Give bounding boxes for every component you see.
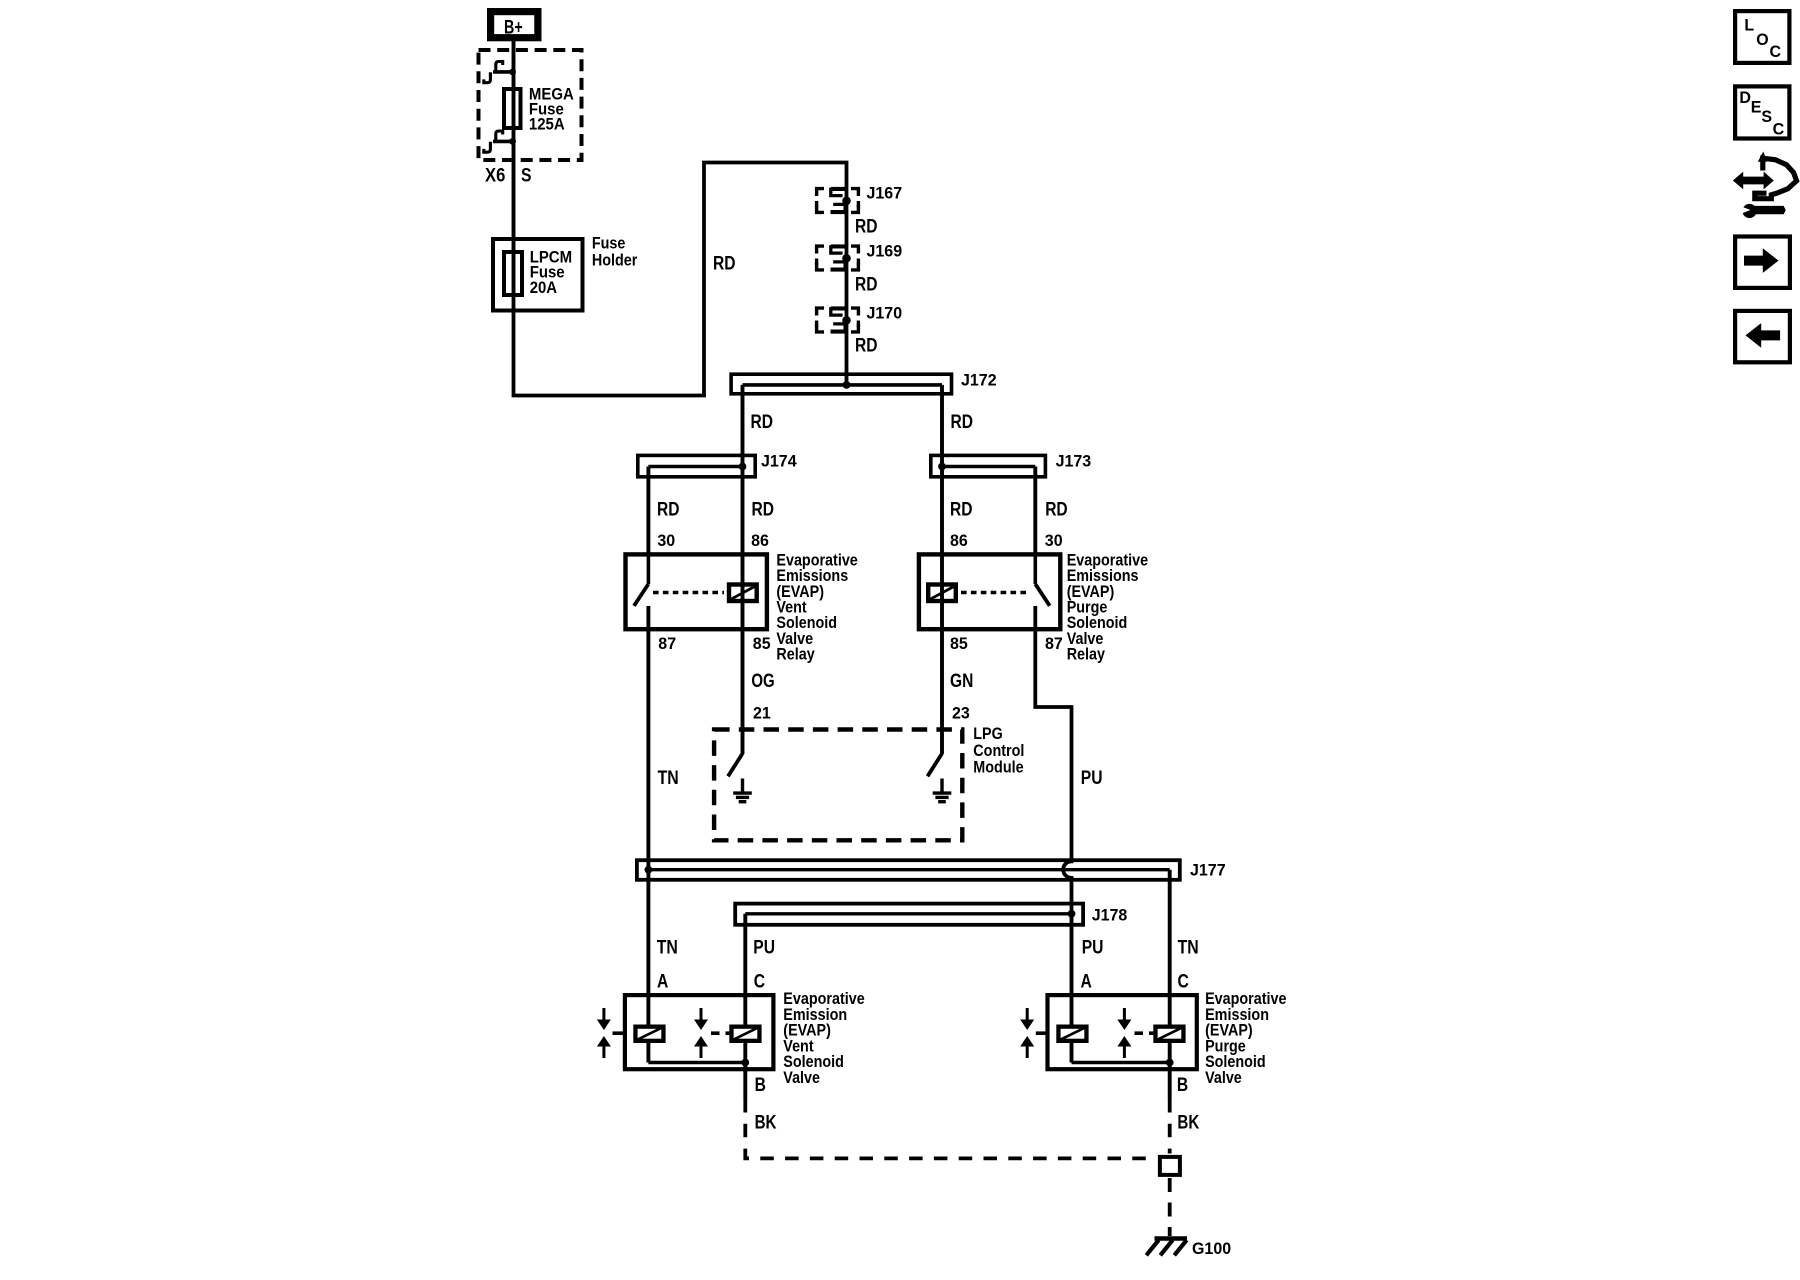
svg-text:PU: PU: [1081, 768, 1103, 789]
wire J173 to relay pin 86 (RD): [940, 467, 944, 584]
svg-text:RD: RD: [950, 499, 973, 520]
junction at right valve common: [1166, 1059, 1174, 1067]
svg-text:C: C: [1178, 971, 1190, 992]
label MEGA Fuse 125A: [529, 85, 574, 134]
svg-text:B: B: [755, 1075, 766, 1096]
svg-text:J167: J167: [867, 185, 903, 203]
icon box LOC: [1735, 11, 1789, 63]
svg-text:J170: J170: [867, 305, 903, 323]
svg-text:Valve: Valve: [783, 1068, 820, 1087]
LPG module switch arm pin 23: [928, 754, 943, 777]
svg-text:E: E: [1751, 99, 1762, 117]
svg-text:BK: BK: [1177, 1112, 1199, 1133]
svg-text:D: D: [1739, 89, 1751, 107]
svg-text:A: A: [657, 971, 669, 992]
chassis ground G100 symbol: [1146, 1239, 1187, 1256]
relay EVAP purge solenoid valve relay box: [919, 554, 1060, 629]
coil 2 diagonal: [732, 1027, 759, 1040]
icon outline arrow with hook: [1755, 158, 1797, 199]
label LPCM Fuse 20A: [530, 247, 572, 297]
label right valve description: [1205, 989, 1286, 1087]
common link line (left valve): [648, 1061, 745, 1065]
wire LPCM fuse to J167 chain (RD feed): [514, 163, 847, 396]
svg-text:PU: PU: [753, 937, 775, 958]
valve symbol (bowtie) inside right valve: [1117, 1008, 1131, 1058]
wire J177 to right valve pin C (TN): [1168, 870, 1172, 1026]
coil 1 of purge solenoid valve: [1058, 1027, 1086, 1041]
wire J172 to J173 (RD): [940, 385, 944, 467]
ground stub in LPG module (pin 21): [741, 779, 744, 792]
splice pack J178 box: [735, 904, 1083, 925]
svg-text:Relay: Relay: [776, 645, 815, 664]
valve symbol (bowtie) inside left valve: [694, 1008, 708, 1058]
splice pack J174 box: [638, 455, 755, 476]
svg-text:87: 87: [1045, 635, 1063, 653]
svg-text:86: 86: [950, 532, 968, 550]
wire A through coil1 to common (left valve): [646, 1043, 650, 1063]
svg-text:J169: J169: [867, 243, 903, 261]
svg-text:21: 21: [753, 705, 771, 723]
connector J169: [817, 246, 859, 270]
wire relay 86 through coil to 85 (GN): [940, 583, 944, 754]
svg-text:J174: J174: [761, 453, 797, 471]
wire pin B right valve (BK solid part): [1168, 1063, 1172, 1100]
ground stub in LPG module (pin 23): [940, 779, 943, 792]
splice pack J173 box: [931, 455, 1046, 476]
fuse holder (LPCM) box: [493, 239, 583, 311]
junction at left valve common: [741, 1059, 749, 1067]
svg-text:20A: 20A: [530, 278, 557, 297]
relay right actuation dashes: [961, 591, 1030, 595]
icon box DESC: [1735, 86, 1789, 138]
icon wrench: [1738, 204, 1786, 218]
wire BK right valve to splice (dashed): [1168, 1099, 1172, 1154]
svg-text:S: S: [1761, 108, 1772, 126]
svg-text:A: A: [1081, 971, 1093, 992]
svg-text:TN: TN: [657, 937, 678, 958]
EVAP vent solenoid valve box: [625, 995, 774, 1069]
svg-text:30: 30: [657, 532, 675, 550]
connector J167: [817, 189, 859, 213]
battery positive node B+ box: [491, 12, 538, 38]
icon box back arrow: [1735, 311, 1790, 362]
LPG control module dashed box: [714, 730, 962, 841]
svg-text:J172: J172: [961, 371, 997, 389]
splice pack J178 bus line: [745, 912, 1071, 915]
svg-text:RD: RD: [855, 216, 878, 237]
junction at J172: [843, 381, 851, 389]
svg-text:Holder: Holder: [592, 250, 638, 269]
icon forward arrow: [1744, 248, 1779, 273]
svg-text:RD: RD: [713, 253, 736, 274]
wire J172 to J174 (RD): [741, 385, 745, 467]
signal ground symbol (pin 21): [733, 793, 752, 802]
svg-text:L: L: [1744, 17, 1754, 35]
coil 2 of vent solenoid valve: [731, 1027, 759, 1041]
splice pack J177 bus line: [648, 868, 1169, 871]
svg-text:RD: RD: [855, 274, 878, 295]
svg-text:RD: RD: [951, 412, 974, 433]
EVAP purge solenoid valve box: [1048, 995, 1197, 1069]
icon box forward arrow: [1735, 237, 1790, 288]
svg-text:PU: PU: [1082, 937, 1104, 958]
junction at J173: [938, 463, 946, 471]
valve symbol (bowtie) outside right valve: [1020, 1008, 1034, 1058]
svg-text:30: 30: [1045, 532, 1063, 550]
LPG module switch arm pin 21: [728, 754, 743, 777]
svg-text:C: C: [1770, 43, 1782, 61]
wire MEGA fuse to LPCM fuse (RD): [512, 130, 516, 251]
coil 2 of purge solenoid valve: [1155, 1027, 1183, 1041]
relay left switch stub from pin 30: [647, 552, 651, 584]
splice pack J173 bus line: [942, 465, 1035, 469]
wire A through coil1 to common (right valve): [1070, 1043, 1074, 1063]
junction at J178 right: [1068, 910, 1076, 918]
svg-text:85: 85: [950, 635, 968, 653]
wire splice to ground G100 (dashed): [1168, 1178, 1172, 1236]
label relay left description: [776, 550, 857, 663]
relay right switch arm: [1035, 584, 1049, 606]
label Fuse Holder: [592, 234, 638, 270]
wire J178 to right valve pin A (PU): [1070, 914, 1074, 1026]
wire C through coil2 to common (right valve): [1168, 1043, 1172, 1063]
icon DESC letters: [1739, 89, 1784, 138]
svg-text:C: C: [1773, 120, 1785, 138]
svg-text:125A: 125A: [529, 115, 565, 134]
svg-text:X6: X6: [485, 166, 505, 187]
svg-text:J173: J173: [1056, 453, 1092, 471]
relay right coil box: [928, 585, 956, 602]
wire BK left valve to splice (dashed): [745, 1099, 1156, 1158]
svg-text:S: S: [521, 166, 532, 187]
svg-text:Valve: Valve: [1205, 1068, 1242, 1087]
svg-text:Relay: Relay: [1067, 645, 1106, 664]
svg-text:C: C: [754, 971, 766, 992]
splice connector square: [1160, 1157, 1180, 1175]
relay left coil diagonal: [730, 586, 756, 600]
wire J178 to left valve pin C (PU): [743, 914, 747, 1026]
wire J174 to relay pin 86 (RD): [741, 467, 745, 584]
fuse MEGA 125A element: [504, 89, 521, 128]
splice pack J177 box: [637, 860, 1180, 880]
label left valve description: [783, 989, 864, 1087]
connector J170: [817, 308, 859, 332]
wire C through coil2 to common (left valve): [743, 1043, 747, 1063]
svg-text:GN: GN: [950, 671, 973, 692]
junction at J177 left: [645, 866, 653, 874]
wire relay 86 through coil to 85 (OG): [741, 583, 745, 754]
coil 2 diagonal right valve: [1156, 1027, 1183, 1040]
svg-text:B+: B+: [504, 17, 523, 38]
connector terminal above MEGA fuse: [484, 62, 516, 83]
svg-text:O: O: [1756, 31, 1769, 49]
connector terminal below MEGA fuse: [484, 131, 516, 152]
svg-text:TN: TN: [658, 768, 679, 789]
relay left switch arm: [634, 584, 648, 606]
svg-text:B: B: [1177, 1075, 1188, 1096]
svg-text:85: 85: [753, 635, 771, 653]
svg-text:23: 23: [952, 705, 970, 723]
svg-text:TN: TN: [1178, 937, 1199, 958]
coil 1 diagonal right valve: [1059, 1027, 1086, 1040]
fuse holder (MEGA) dashed box: [479, 50, 582, 160]
svg-text:BK: BK: [755, 1112, 777, 1133]
svg-text:86: 86: [751, 532, 769, 550]
splice pack J172 box: [731, 374, 951, 394]
coil 1 of vent solenoid valve: [635, 1027, 663, 1041]
wire through LPCM fuse: [512, 250, 516, 296]
wire relay 87 right to J178 (PU) with crossover hop: [1035, 606, 1071, 914]
wire J174 to relay pin 30 (RD): [646, 467, 650, 554]
relay left coil box: [729, 585, 757, 602]
link dashes bowtie2 to coil2 (right valve): [1135, 1031, 1154, 1035]
svg-text:RD: RD: [1045, 499, 1068, 520]
svg-text:RD: RD: [657, 499, 680, 520]
relay EVAP vent solenoid valve relay box: [626, 554, 767, 629]
label LPG Control Module: [973, 724, 1024, 777]
svg-text:RD: RD: [751, 412, 774, 433]
relay right coil diagonal: [929, 586, 955, 600]
svg-text:87: 87: [658, 635, 676, 653]
icon LOC letters: [1744, 17, 1781, 62]
signal ground symbol (pin 23): [933, 793, 952, 802]
link bowtie to coil (left valve): [613, 1031, 625, 1035]
svg-text:OG: OG: [751, 671, 774, 692]
relay right switch stub from pin 30: [1034, 552, 1038, 584]
link bowtie to coil (right valve): [1036, 1031, 1048, 1035]
svg-text:RD: RD: [855, 335, 878, 356]
junction at J174: [739, 463, 747, 471]
relay left actuation dashes: [653, 591, 724, 595]
svg-text:G100: G100: [1192, 1240, 1231, 1258]
svg-text:J177: J177: [1190, 861, 1226, 879]
wire relay 87 to J177 and valve A (TN): [646, 606, 650, 1026]
icon back arrow: [1746, 323, 1781, 348]
svg-text:Module: Module: [973, 758, 1023, 777]
splice pack J172 bus line: [743, 383, 943, 387]
coil 1 diagonal: [636, 1027, 663, 1040]
svg-text:RD: RD: [752, 499, 775, 520]
wire through MEGA fuse: [512, 88, 516, 129]
wire pin B left valve (BK solid part): [743, 1063, 747, 1100]
link dashes bowtie2 to coil2 (left valve): [711, 1031, 730, 1035]
splice pack J174 bus line: [648, 465, 742, 469]
common link line (right valve): [1072, 1061, 1170, 1065]
fuse LPCM 20A element: [504, 252, 522, 295]
icon double-headed arrow: [1733, 172, 1774, 190]
wire J173 to relay pin 30 (RD): [1033, 467, 1037, 554]
label relay right description: [1067, 550, 1148, 663]
valve symbol (bowtie) outside left valve: [597, 1008, 611, 1058]
svg-text:J178: J178: [1092, 906, 1128, 924]
wire B+ to MEGA fuse (RD): [512, 41, 516, 89]
